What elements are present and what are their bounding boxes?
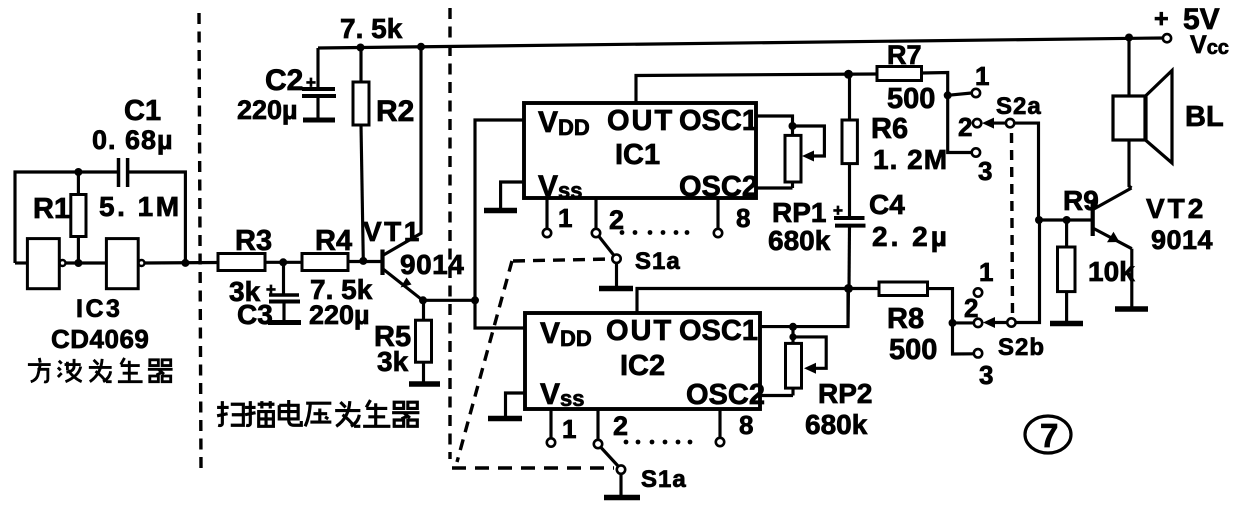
- capacitor C4 (polarized): [833, 201, 866, 327]
- svg-text:+: +: [1154, 5, 1169, 33]
- wire: S1a (IC1) pole to ground: [615, 263, 618, 286]
- node: rail-R2 junction: [357, 44, 365, 52]
- wire: gate2 output: [145, 261, 219, 265]
- svg-text:OSC2: OSC2: [686, 379, 765, 411]
- terminal: IC2 pin1: [547, 438, 555, 446]
- label: IC2 pin ellipsis: [624, 440, 693, 445]
- resistor R6: [842, 74, 857, 217]
- node: S2 bus to VT2 base junction: [1035, 216, 1043, 224]
- svg-text:IC1: IC1: [615, 139, 660, 171]
- svg-text:OUT: OUT: [606, 315, 673, 347]
- wire: IC2 OUT to R8 row: [637, 289, 879, 314]
- ground: below R9: [1050, 321, 1083, 327]
- svg-text:9014: 9014: [400, 249, 464, 280]
- ground: S1a (IC1): [599, 286, 633, 292]
- node: C4-R8 row junction: [844, 284, 853, 293]
- wire: speaker top lead: [1127, 38, 1130, 97]
- wire: gate1 out to gate2 in: [66, 261, 107, 264]
- dashed gang link S1a diagonal: [457, 261, 512, 462]
- wire: +5V power rail: [318, 38, 1163, 48]
- svg-text:OUT: OUT: [607, 105, 674, 137]
- wire: S1a (IC2) pole to ground: [619, 474, 622, 495]
- wire: IC2 pin2 stub: [596, 409, 599, 440]
- node: R9 top junction: [1063, 216, 1071, 224]
- svg-text:RP2: RP2: [818, 378, 872, 409]
- terminal: IC1 pin1: [543, 229, 551, 237]
- wire: loop top left segment: [15, 172, 119, 263]
- node: VDD column junction: [471, 296, 479, 304]
- wire: IC1 OSC1 to RP1: [756, 116, 793, 135]
- svg-text:1: 1: [979, 257, 993, 287]
- svg-text:7. 5k: 7. 5k: [340, 13, 403, 44]
- inverter gate IC3a: [27, 239, 65, 289]
- svg-text:3: 3: [979, 360, 993, 390]
- capacitor C2 (polarized): [302, 73, 336, 120]
- node: rail-VT1 collector junction: [417, 43, 425, 51]
- wire: IC2 pin8 stub: [718, 409, 721, 438]
- node: gate1 output junction: [74, 259, 82, 267]
- wire: VDD column to IC2: [475, 300, 525, 328]
- ground: IC1 Vss: [484, 208, 517, 214]
- svg-text:S1a: S1a: [635, 248, 681, 275]
- label: section 方波发生器 (square wave generator): [28, 358, 173, 382]
- svg-text:+: +: [833, 201, 843, 220]
- resistor R2: [353, 48, 369, 261]
- ground: VT2 emitter: [1115, 306, 1148, 312]
- node: rail-speaker junction: [1125, 34, 1133, 42]
- svg-text:RP1: RP1: [772, 197, 826, 228]
- node: R2 bottom junction: [359, 257, 367, 265]
- svg-text:500: 500: [889, 334, 937, 366]
- svg-text:Vss: Vss: [538, 170, 583, 203]
- svg-text:C1: C1: [124, 95, 161, 127]
- svg-text:1: 1: [975, 61, 989, 91]
- label: +5V Vcc: [1154, 3, 1229, 59]
- wire: VT1 collector to rail: [384, 47, 422, 255]
- capacitor C1: [119, 158, 128, 187]
- svg-text:+: +: [266, 280, 276, 299]
- svg-text:VDD: VDD: [538, 106, 590, 140]
- node: RP2 top junction: [789, 323, 797, 331]
- dashed gang link S2a-S2b: [1012, 133, 1013, 315]
- speaker BL: [1113, 71, 1172, 164]
- wire: IC1 pin2 stub: [594, 198, 597, 229]
- svg-text:C4: C4: [869, 189, 905, 220]
- resistor R1: [71, 172, 86, 263]
- potentiometer RP1: [757, 126, 824, 188]
- dashed section divider left: [199, 13, 201, 469]
- resistor R7: [877, 67, 948, 96]
- wire: gate1 input: [15, 261, 27, 264]
- resistor R4: [302, 254, 381, 271]
- svg-text:VDD: VDD: [540, 317, 592, 351]
- svg-text:3k: 3k: [377, 346, 409, 377]
- op-amp-style block: music IC U=IC1: [524, 103, 756, 198]
- op-amp-style block: music IC U=IC2: [525, 313, 760, 409]
- resistor R3: [218, 254, 302, 271]
- svg-text:OSC1: OSC1: [679, 315, 758, 347]
- wire: VDD column to IC1: [475, 120, 524, 300]
- svg-text:VT1: VT1: [363, 216, 422, 247]
- wire: loop top right segment: [128, 172, 186, 263]
- svg-text:CD4069: CD4069: [51, 324, 149, 354]
- node: RP1 top junction: [789, 122, 797, 130]
- svg-text:R6: R6: [871, 113, 908, 145]
- inverter gate IC3b: [106, 239, 144, 289]
- ground: S1a (IC2): [604, 495, 640, 501]
- wire: C2 top lead from rail: [316, 48, 319, 88]
- wire: IC2 pin1 stub: [549, 409, 552, 438]
- svg-text:Vss: Vss: [540, 378, 585, 411]
- svg-text:R8: R8: [887, 303, 924, 335]
- svg-text:10k: 10k: [1088, 256, 1135, 287]
- ground: below R5: [409, 381, 440, 387]
- svg-text:680k: 680k: [768, 225, 831, 256]
- svg-text:2. 2µ: 2. 2µ: [872, 221, 950, 252]
- dashed gang link bottom horizontal to S1a of IC2: [452, 466, 614, 469]
- svg-text:0. 68µ: 0. 68µ: [92, 125, 174, 155]
- svg-text:8: 8: [739, 410, 753, 440]
- terminal: S1a (IC2) pole: [617, 465, 625, 473]
- potentiometer RP2: [760, 327, 826, 396]
- svg-text:1: 1: [558, 203, 572, 233]
- svg-text:2: 2: [613, 411, 628, 441]
- node: VT1 emitter junction: [419, 296, 427, 304]
- svg-text:C3: C3: [237, 299, 273, 330]
- label: IC1 pin ellipsis: [620, 230, 690, 235]
- svg-text:1: 1: [562, 414, 576, 444]
- wire: IC1 pin1 stub: [545, 198, 548, 229]
- svg-text:220µ: 220µ: [237, 95, 298, 125]
- svg-text:8: 8: [736, 203, 750, 233]
- svg-text:IC2: IC2: [620, 350, 665, 382]
- switch S1a (IC1) arm: [599, 237, 614, 256]
- wire: IC1 OUT to R7 row: [636, 74, 877, 103]
- switch S1a (IC2) arm: [601, 448, 619, 467]
- svg-text:S2a: S2a: [996, 93, 1042, 120]
- capacitor C3 (polarized): [266, 262, 301, 322]
- svg-text:IC3: IC3: [76, 295, 122, 323]
- svg-text:680k: 680k: [805, 409, 868, 440]
- figure number 7 (circled): [1025, 416, 1071, 454]
- svg-text:R1: R1: [33, 193, 70, 225]
- label: section 扫描电压发生器 (sweep voltage generator): [217, 400, 419, 426]
- resistor R5: [416, 300, 432, 382]
- svg-text:VT2: VT2: [1146, 193, 1206, 224]
- terminal: +5V supply: [1163, 34, 1171, 42]
- transistor VT2 9014: [1093, 188, 1132, 307]
- terminal: IC2 pin8: [716, 438, 724, 446]
- svg-text:S1a: S1a: [641, 466, 687, 493]
- terminal: IC1 pin8: [714, 229, 722, 237]
- terminal: S1a (IC1) pole: [612, 255, 620, 263]
- terminal: IC2 pin2: [594, 440, 602, 448]
- svg-text:500: 500: [887, 83, 935, 115]
- node: R1 top junction: [74, 168, 82, 176]
- wire: IC1 pin8 stub: [716, 198, 719, 229]
- svg-text:S2b: S2b: [998, 334, 1045, 361]
- svg-text:C2: C2: [265, 64, 303, 97]
- dashed gang link to S1a of IC1: [513, 259, 611, 261]
- svg-text:2: 2: [964, 293, 978, 323]
- resistor R8: [879, 282, 953, 323]
- terminal: IC1 pin2: [592, 229, 600, 237]
- wire: IC1 Vss to ground: [501, 182, 524, 208]
- svg-text:BL: BL: [1185, 101, 1224, 133]
- resistor R9 10k: [1058, 220, 1076, 321]
- wire: IC2 Vss to ground: [506, 393, 526, 416]
- svg-text:7: 7: [1040, 417, 1058, 454]
- node: R6 top junction: [844, 70, 853, 79]
- ground: IC2 Vss: [488, 416, 522, 422]
- svg-text:+: +: [306, 73, 316, 92]
- svg-text:R7: R7: [887, 40, 922, 70]
- node: gate2 output junction: [181, 259, 189, 267]
- svg-text:R3: R3: [235, 225, 272, 257]
- switch S2a: [944, 89, 1039, 220]
- svg-text:R4: R4: [315, 225, 352, 257]
- node: RP2 wiper junction: [789, 333, 796, 340]
- switch S2b: [949, 220, 1040, 357]
- transistor VT1 9014: [383, 250, 423, 301]
- wire: speaker bottom lead to VT2 collector: [1129, 140, 1132, 188]
- svg-text:5. 1M: 5. 1M: [99, 191, 182, 222]
- svg-text:R2: R2: [376, 95, 414, 128]
- svg-text:2: 2: [958, 112, 972, 142]
- dashed section divider right: [448, 8, 451, 459]
- svg-text:OSC1: OSC1: [679, 105, 758, 137]
- wire: to VT2 base: [1039, 218, 1091, 221]
- node: R3-R4-C3 junction: [279, 258, 287, 266]
- wire: emitter node to VDD column: [423, 299, 475, 302]
- svg-text:7. 5k: 7. 5k: [310, 274, 373, 305]
- svg-text:1. 2M: 1. 2M: [873, 144, 948, 175]
- svg-text:9014: 9014: [1151, 225, 1213, 255]
- svg-text:3: 3: [978, 156, 992, 186]
- wire: IC2 OSC1 to RP2 and up: [760, 289, 848, 327]
